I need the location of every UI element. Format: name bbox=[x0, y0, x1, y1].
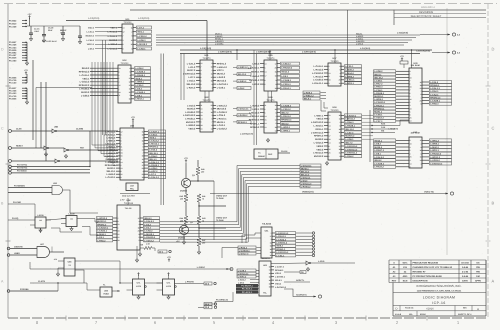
svg-text:L-RAS8.3: L-RAS8.3 bbox=[79, 88, 90, 91]
svg-text:18: 18 bbox=[201, 124, 203, 127]
svg-text:62916 REV A: 62916 REV A bbox=[421, 6, 435, 9]
svg-text:14: 14 bbox=[275, 129, 277, 132]
svg-text:4: 4 bbox=[130, 74, 131, 77]
svg-text:15: 15 bbox=[142, 130, 144, 133]
svg-text:L-D6.2: L-D6.2 bbox=[238, 87, 245, 90]
svg-text:5: 5 bbox=[265, 108, 266, 111]
svg-text:18: 18 bbox=[339, 148, 341, 151]
svg-text:14: 14 bbox=[265, 71, 267, 74]
svg-text:DM: DM bbox=[476, 275, 480, 278]
svg-text:18: 18 bbox=[329, 138, 331, 141]
svg-text:L-CS4.1: L-CS4.1 bbox=[87, 31, 95, 34]
svg-text:L-MA6.3: L-MA6.3 bbox=[107, 173, 116, 176]
svg-text:L-WE3.2: L-WE3.2 bbox=[238, 80, 247, 83]
svg-text:7: 7 bbox=[421, 90, 422, 93]
svg-text:L-WE13.2: L-WE13.2 bbox=[238, 66, 249, 69]
svg-text:4: 4 bbox=[143, 170, 144, 173]
svg-text:1: 1 bbox=[340, 121, 341, 124]
svg-text:8: 8 bbox=[143, 136, 144, 139]
svg-text:L-DATA(15:0): L-DATA(15:0) bbox=[240, 133, 253, 136]
svg-text:L-WE6.2: L-WE6.2 bbox=[345, 75, 354, 78]
svg-text:20: 20 bbox=[339, 79, 341, 82]
svg-text:10: 10 bbox=[201, 127, 203, 130]
svg-text:L-CAS10.1: L-CAS10.1 bbox=[345, 114, 357, 117]
svg-text:14: 14 bbox=[142, 149, 144, 152]
svg-text:L-CS8.3: L-CS8.3 bbox=[81, 94, 90, 97]
svg-text:15: 15 bbox=[211, 108, 213, 111]
svg-text:16MHZ: 16MHZ bbox=[258, 155, 266, 158]
svg-text:10: 10 bbox=[275, 104, 277, 107]
svg-text:L-MA8.2: L-MA8.2 bbox=[251, 104, 260, 107]
svg-text:L-CS1.1: L-CS1.1 bbox=[345, 65, 354, 68]
svg-text:L-D8.1: L-D8.1 bbox=[374, 153, 381, 156]
svg-text:7: 7 bbox=[271, 232, 272, 235]
svg-text:P1-A47: P1-A47 bbox=[9, 54, 17, 57]
svg-text:L-CAS0.1: L-CAS0.1 bbox=[135, 91, 146, 94]
svg-text:L-DAL2.2: L-DAL2.2 bbox=[149, 176, 159, 179]
svg-text:L-D7.1: L-D7.1 bbox=[188, 76, 196, 79]
svg-text:74S240: 74S240 bbox=[331, 109, 340, 112]
svg-text:11: 11 bbox=[119, 94, 121, 97]
svg-text:20: 20 bbox=[275, 67, 277, 70]
svg-text:3: 3 bbox=[329, 82, 330, 85]
svg-text:2: 2 bbox=[410, 101, 411, 104]
svg-text:P1-B07: P1-B07 bbox=[9, 41, 17, 44]
svg-text:L-MA12.3: L-MA12.3 bbox=[249, 112, 260, 115]
svg-text:5: 5 bbox=[265, 111, 266, 114]
svg-text:7: 7 bbox=[118, 217, 119, 220]
svg-text:L-RAS9.3: L-RAS9.3 bbox=[185, 111, 196, 114]
svg-text:20: 20 bbox=[138, 230, 140, 233]
svg-text:14: 14 bbox=[269, 272, 271, 275]
svg-text:2: 2 bbox=[410, 89, 411, 92]
svg-text:P1-B37: P1-B37 bbox=[9, 87, 17, 90]
svg-text:1: 1 bbox=[329, 155, 330, 158]
svg-text:16K RAM: 16K RAM bbox=[410, 64, 419, 67]
svg-text:L-DATA12.3: L-DATA12.3 bbox=[183, 114, 196, 117]
svg-text:74LS244: 74LS244 bbox=[262, 222, 272, 225]
svg-text:L-MA2.2: L-MA2.2 bbox=[107, 137, 116, 140]
svg-text:14: 14 bbox=[201, 111, 203, 114]
svg-text:8: 8 bbox=[340, 124, 341, 127]
svg-text:12: 12 bbox=[129, 81, 131, 84]
svg-text:L-CA(15:0): L-CA(15:0) bbox=[88, 17, 99, 20]
svg-text:17: 17 bbox=[270, 235, 272, 238]
svg-text:L-RA13.2: L-RA13.2 bbox=[281, 115, 291, 118]
svg-text:C: C bbox=[492, 126, 495, 131]
svg-text:L-RA14.3: L-RA14.3 bbox=[108, 31, 119, 34]
svg-text:L-TV: L-TV bbox=[120, 199, 125, 202]
svg-text:L-CA(15:0): L-CA(15:0) bbox=[360, 47, 370, 50]
svg-text:9: 9 bbox=[143, 146, 144, 149]
svg-text:16: 16 bbox=[420, 149, 422, 152]
svg-text:P1-A49: P1-A49 bbox=[9, 25, 17, 28]
svg-text:L-RAS6.1: L-RAS6.1 bbox=[345, 125, 356, 128]
svg-text:4: 4 bbox=[139, 223, 140, 226]
svg-text:L-CAS9.3: L-CAS9.3 bbox=[374, 162, 385, 165]
svg-text:12: 12 bbox=[201, 62, 203, 65]
svg-text:L-RA15.2: L-RA15.2 bbox=[374, 166, 384, 169]
svg-text:L-WE1.1: L-WE1.1 bbox=[430, 149, 439, 152]
svg-text:L-D5.3: L-D5.3 bbox=[281, 75, 288, 78]
svg-text:9: 9 bbox=[340, 75, 341, 78]
svg-text:17: 17 bbox=[265, 75, 267, 78]
svg-text:16: 16 bbox=[129, 98, 131, 101]
svg-text:10: 10 bbox=[270, 241, 272, 244]
svg-text:19: 19 bbox=[269, 286, 271, 289]
svg-text:16: 16 bbox=[211, 111, 213, 114]
svg-text:PX-HSYNC: PX-HSYNC bbox=[17, 167, 28, 170]
svg-text:6: 6 bbox=[201, 121, 202, 124]
svg-text:P1-C19: P1-C19 bbox=[9, 79, 17, 82]
svg-text:16: 16 bbox=[339, 114, 341, 117]
svg-text:8: 8 bbox=[121, 139, 122, 142]
svg-text:18: 18 bbox=[269, 276, 271, 279]
svg-text:19: 19 bbox=[269, 282, 271, 285]
svg-text:19: 19 bbox=[142, 155, 144, 158]
svg-text:14: 14 bbox=[265, 115, 267, 118]
svg-text:7: 7 bbox=[212, 121, 213, 124]
svg-text:A: A bbox=[477, 307, 479, 311]
svg-text:12: 12 bbox=[123, 31, 125, 34]
svg-text:75: 75 bbox=[202, 220, 204, 223]
svg-text:MUX12.3: MUX12.3 bbox=[217, 80, 227, 83]
svg-text:10: 10 bbox=[339, 82, 341, 85]
svg-text:L-CS7.3: L-CS7.3 bbox=[345, 131, 354, 134]
svg-text:CLK8: CLK8 bbox=[16, 128, 22, 131]
svg-text:4: 4 bbox=[410, 159, 411, 162]
svg-text:8: 8 bbox=[421, 93, 422, 96]
svg-text:7: 7 bbox=[410, 79, 411, 82]
svg-text:62916: 62916 bbox=[420, 313, 426, 316]
svg-text:11: 11 bbox=[265, 104, 267, 107]
svg-text:1: 1 bbox=[340, 135, 341, 138]
svg-text:1: 1 bbox=[410, 95, 411, 98]
svg-text:CHANGED PIN 11 OF U71 TO U66A-: CHANGED PIN 11 OF U71 TO U66A-10 bbox=[413, 266, 453, 269]
svg-text:19: 19 bbox=[410, 107, 412, 110]
svg-text:L-CAS1.3: L-CAS1.3 bbox=[249, 79, 260, 82]
svg-text:5: 5 bbox=[410, 149, 411, 152]
svg-text:74S240: 74S240 bbox=[331, 60, 340, 63]
svg-text:11: 11 bbox=[131, 26, 133, 29]
svg-text:MUX15.3: MUX15.3 bbox=[86, 35, 95, 38]
svg-text:J3-5: J3-5 bbox=[205, 306, 210, 309]
svg-text:L-DAL11.1: L-DAL11.1 bbox=[312, 82, 324, 85]
svg-text:L-WE1.2: L-WE1.2 bbox=[430, 139, 439, 142]
svg-text:10: 10 bbox=[201, 114, 203, 117]
svg-text:1: 1 bbox=[121, 136, 122, 139]
svg-text:L-MA4.2: L-MA4.2 bbox=[345, 72, 354, 75]
svg-text:16: 16 bbox=[121, 149, 123, 152]
svg-text:8: 8 bbox=[276, 83, 277, 86]
svg-text:8: 8 bbox=[212, 117, 213, 120]
svg-text:RFSH12.3: RFSH12.3 bbox=[79, 84, 90, 87]
svg-text:PX-CMD: PX-CMD bbox=[13, 201, 21, 204]
svg-text:L-MA0.3: L-MA0.3 bbox=[345, 69, 354, 72]
svg-text:8: 8 bbox=[265, 79, 266, 82]
svg-text:VID13.1: VID13.1 bbox=[87, 43, 95, 46]
svg-text:P1-B10: P1-B10 bbox=[9, 22, 17, 25]
svg-text:MUX6.2: MUX6.2 bbox=[217, 73, 226, 76]
svg-text:L-PRSTB: L-PRSTB bbox=[185, 280, 194, 283]
svg-text:L-CA8.1: L-CA8.1 bbox=[217, 86, 226, 89]
svg-text:62916: 62916 bbox=[426, 308, 434, 311]
svg-text:19: 19 bbox=[339, 141, 341, 144]
svg-text:L-D3.2: L-D3.2 bbox=[252, 83, 260, 86]
svg-text:VID7.1: VID7.1 bbox=[110, 26, 118, 29]
svg-text:L-CAS8.1: L-CAS8.1 bbox=[215, 42, 223, 45]
svg-text:20: 20 bbox=[211, 104, 213, 107]
svg-text:L-RXD: L-RXD bbox=[318, 260, 325, 263]
svg-text:ADDCTL: ADDCTL bbox=[296, 279, 305, 282]
svg-text:5: 5 bbox=[329, 131, 330, 134]
svg-text:MUX3.3: MUX3.3 bbox=[187, 108, 196, 111]
svg-text:VID13.3: VID13.3 bbox=[281, 71, 290, 74]
svg-text:17: 17 bbox=[129, 84, 131, 87]
svg-text:D: D bbox=[395, 306, 397, 310]
svg-text:4: 4 bbox=[410, 146, 411, 149]
svg-text:L-DAL13.1: L-DAL13.1 bbox=[238, 108, 250, 111]
svg-text:USBR: USBR bbox=[14, 252, 20, 255]
svg-text:MUX0.1: MUX0.1 bbox=[251, 71, 260, 74]
svg-text:L-WE8.1: L-WE8.1 bbox=[430, 143, 439, 146]
svg-text:8: 8 bbox=[421, 103, 422, 106]
svg-text:SHEET 1 OF 4: SHEET 1 OF 4 bbox=[458, 313, 472, 316]
svg-text:RST: RST bbox=[80, 147, 85, 150]
svg-text:L-RAS6.2: L-RAS6.2 bbox=[238, 114, 249, 117]
svg-text:9: 9 bbox=[276, 79, 277, 82]
svg-text:1-6-84: 1-6-84 bbox=[462, 266, 469, 269]
svg-text:17: 17 bbox=[339, 145, 341, 148]
svg-text:P1-B35: P1-B35 bbox=[9, 57, 17, 60]
svg-text:L-WE15.1: L-WE15.1 bbox=[105, 155, 116, 158]
svg-text:13: 13 bbox=[339, 138, 341, 141]
svg-text:4: 4 bbox=[410, 70, 411, 73]
svg-text:2: 2 bbox=[139, 239, 140, 242]
svg-text:4: 4 bbox=[201, 69, 202, 72]
svg-text:SEE BOTTOM OF SHEET: SEE BOTTOM OF SHEET bbox=[411, 15, 442, 18]
svg-text:150: 150 bbox=[180, 220, 183, 223]
svg-text:10: 10 bbox=[118, 223, 120, 226]
svg-text:L-CA13.1: L-CA13.1 bbox=[106, 176, 117, 179]
svg-text:18: 18 bbox=[270, 245, 272, 248]
svg-text:SEL13.2: SEL13.2 bbox=[345, 128, 354, 131]
svg-text:14: 14 bbox=[265, 122, 267, 125]
svg-text:5: 5 bbox=[265, 83, 266, 86]
svg-text:L-WE7.3: L-WE7.3 bbox=[106, 140, 116, 143]
svg-text:9: 9 bbox=[139, 233, 140, 236]
svg-text:L-CS15.3: L-CS15.3 bbox=[281, 83, 291, 86]
svg-text:7: 7 bbox=[329, 68, 330, 71]
svg-text:18: 18 bbox=[339, 128, 341, 131]
svg-text:8: 8 bbox=[340, 155, 341, 158]
svg-text:L-CS11.1: L-CS11.1 bbox=[345, 79, 355, 82]
svg-text:LOGIC DIAGRAM: LOGIC DIAGRAM bbox=[423, 296, 456, 300]
svg-text:L-D6.3: L-D6.3 bbox=[252, 63, 260, 66]
svg-text:L-AD13.2: L-AD13.2 bbox=[144, 239, 154, 242]
svg-text:MUX10.2: MUX10.2 bbox=[217, 108, 227, 111]
svg-text:MUX15.2: MUX15.2 bbox=[345, 135, 355, 138]
svg-text:14: 14 bbox=[420, 159, 422, 162]
svg-text:7: 7 bbox=[143, 152, 144, 155]
svg-text:1140 RINGWOOD CT, SAN JOSE, C: 1140 RINGWOOD CT, SAN JOSE, CA 95131 bbox=[417, 290, 462, 293]
svg-text:13: 13 bbox=[265, 62, 267, 65]
svg-text:L-RA12.3: L-RA12.3 bbox=[106, 130, 117, 133]
svg-text:L-MA0.3: L-MA0.3 bbox=[430, 146, 439, 149]
svg-text:MUX8.3: MUX8.3 bbox=[109, 39, 118, 42]
svg-text:MUX7.3: MUX7.3 bbox=[187, 69, 196, 72]
svg-text:L-RAS14.2: L-RAS14.2 bbox=[430, 153, 442, 156]
svg-text:13: 13 bbox=[275, 119, 277, 122]
svg-text:L-RA10.1: L-RA10.1 bbox=[217, 118, 228, 121]
svg-text:1: 1 bbox=[421, 96, 422, 99]
svg-text:L-RAS5.3: L-RAS5.3 bbox=[135, 74, 146, 77]
svg-text:1.5K: 1.5K bbox=[146, 242, 151, 245]
svg-text:L-DATA10.3: L-DATA10.3 bbox=[275, 286, 287, 289]
svg-text:L-RA5.3: L-RA5.3 bbox=[187, 86, 196, 89]
svg-text:L-CAS14.1: L-CAS14.1 bbox=[104, 133, 116, 136]
svg-text:P1-A46: P1-A46 bbox=[9, 90, 17, 93]
svg-text:18: 18 bbox=[142, 133, 144, 136]
svg-text:L-CAS0.2: L-CAS0.2 bbox=[281, 104, 292, 107]
svg-text:14: 14 bbox=[201, 117, 203, 120]
svg-text:75452: 75452 bbox=[103, 293, 109, 296]
svg-text:20: 20 bbox=[142, 173, 144, 176]
svg-text:L-DATA11.3: L-DATA11.3 bbox=[345, 152, 358, 155]
svg-text:J3-2: J3-2 bbox=[205, 282, 210, 285]
svg-text:L-WE5.3: L-WE5.3 bbox=[108, 43, 118, 46]
svg-text:16: 16 bbox=[420, 156, 422, 159]
svg-text:TVL-16: TVL-16 bbox=[125, 207, 133, 210]
svg-text:13: 13 bbox=[410, 162, 412, 165]
svg-text:10: 10 bbox=[211, 66, 213, 69]
svg-text:R40: R40 bbox=[201, 168, 204, 171]
svg-text:P1-B06: P1-B06 bbox=[9, 76, 17, 79]
svg-text:2: 2 bbox=[119, 74, 120, 77]
svg-text:L-CA8.3: L-CA8.3 bbox=[86, 39, 94, 42]
svg-text:11: 11 bbox=[339, 118, 341, 121]
svg-text:4: 4 bbox=[212, 86, 213, 89]
svg-text:VID7.1: VID7.1 bbox=[217, 69, 225, 72]
svg-text:L-DATA13.3: L-DATA13.3 bbox=[345, 148, 358, 151]
svg-text:L-CA(15:0): L-CA(15:0) bbox=[138, 17, 149, 20]
svg-text:L-MA3.2: L-MA3.2 bbox=[238, 275, 247, 278]
svg-text:MUX8.3: MUX8.3 bbox=[315, 138, 324, 141]
svg-text:P1-A60: P1-A60 bbox=[9, 59, 17, 62]
svg-text:RFSH14.3: RFSH14.3 bbox=[105, 164, 116, 167]
svg-text:SEL10.1: SEL10.1 bbox=[107, 170, 117, 173]
svg-text:L-D10.3: L-D10.3 bbox=[187, 104, 196, 107]
svg-text:VID8.2: VID8.2 bbox=[316, 145, 324, 148]
svg-text:150: 150 bbox=[180, 198, 183, 201]
svg-text:R41: R41 bbox=[202, 195, 205, 198]
svg-text:L-CS1.1: L-CS1.1 bbox=[276, 254, 285, 257]
svg-text:L-MA2.1: L-MA2.1 bbox=[135, 98, 144, 101]
svg-text:L-CA1.2: L-CA1.2 bbox=[187, 62, 196, 65]
svg-text:74S374: 74S374 bbox=[267, 99, 276, 102]
svg-text:RFSH6.3: RFSH6.3 bbox=[275, 269, 284, 272]
svg-text:16: 16 bbox=[269, 279, 271, 282]
svg-text:74LS374: 74LS374 bbox=[261, 257, 271, 260]
svg-text:RAS: RAS bbox=[381, 122, 386, 125]
svg-text:P1-A03: P1-A03 bbox=[9, 92, 17, 95]
svg-text:16: 16 bbox=[142, 161, 144, 164]
svg-text:VID1.1: VID1.1 bbox=[137, 31, 144, 34]
svg-text:J3-STB: J3-STB bbox=[38, 280, 45, 283]
svg-text:P1-A23: P1-A23 bbox=[9, 46, 17, 49]
svg-text:8: 8 bbox=[121, 133, 122, 136]
svg-text:L-RAS7.3: L-RAS7.3 bbox=[374, 149, 385, 152]
svg-text:L-AD(15:0): L-AD(15:0) bbox=[397, 32, 408, 35]
svg-text:15: 15 bbox=[275, 71, 277, 74]
svg-text:1: 1 bbox=[212, 69, 213, 72]
svg-text:J3-4: J3-4 bbox=[205, 303, 210, 306]
svg-text:17: 17 bbox=[129, 77, 131, 80]
svg-text:1: 1 bbox=[118, 226, 119, 229]
svg-text:130: 130 bbox=[201, 171, 204, 174]
svg-text:20: 20 bbox=[420, 87, 422, 90]
svg-text:L-CS5.3: L-CS5.3 bbox=[135, 84, 144, 87]
svg-text:L-DATA10.3: L-DATA10.3 bbox=[430, 162, 443, 165]
svg-text:L-RAS4.1: L-RAS4.1 bbox=[185, 118, 196, 121]
svg-text:5: 5 bbox=[410, 92, 411, 95]
svg-text:2: 2 bbox=[329, 65, 330, 68]
svg-text:13: 13 bbox=[410, 120, 412, 123]
svg-text:2: 2 bbox=[121, 143, 122, 146]
svg-text:14: 14 bbox=[329, 124, 331, 127]
svg-text:P1-B39: P1-B39 bbox=[9, 49, 17, 52]
svg-text:3: 3 bbox=[410, 166, 411, 169]
svg-text:SEL7.2: SEL7.2 bbox=[281, 112, 289, 115]
svg-text:13: 13 bbox=[329, 72, 331, 75]
svg-text:L-DATA(15:0): L-DATA(15:0) bbox=[256, 50, 270, 53]
svg-text:L-AD9.2: L-AD9.2 bbox=[135, 67, 144, 70]
svg-text:APPD: APPD bbox=[475, 279, 481, 282]
svg-text:18: 18 bbox=[329, 79, 331, 82]
svg-text:8: 8 bbox=[410, 139, 411, 142]
svg-text:L-MA(8:0): L-MA(8:0) bbox=[388, 127, 398, 130]
svg-text:PC PRODUCTION RELEASE: PC PRODUCTION RELEASE bbox=[413, 275, 443, 278]
svg-text:74S374: 74S374 bbox=[267, 57, 276, 60]
svg-text:L-DAL2.3: L-DAL2.3 bbox=[105, 143, 116, 146]
svg-text:L-RAS4.2: L-RAS4.2 bbox=[301, 185, 312, 188]
svg-text:N/A: N/A bbox=[409, 313, 413, 316]
svg-text:MUX3.1: MUX3.1 bbox=[107, 167, 116, 170]
svg-text:8: 8 bbox=[123, 43, 124, 46]
svg-text:20: 20 bbox=[142, 167, 144, 170]
svg-text:4: 4 bbox=[201, 86, 202, 89]
svg-text:SCALE: SCALE bbox=[395, 313, 402, 316]
svg-text:L-CS14.3: L-CS14.3 bbox=[281, 63, 291, 66]
svg-text:8: 8 bbox=[276, 111, 277, 114]
svg-text:14: 14 bbox=[329, 141, 331, 144]
svg-text:L-MA5.3: L-MA5.3 bbox=[251, 75, 260, 78]
svg-text:L-AD4.2: L-AD4.2 bbox=[238, 278, 246, 281]
svg-text:8: 8 bbox=[121, 170, 122, 173]
svg-text:11: 11 bbox=[142, 158, 144, 161]
svg-text:16: 16 bbox=[339, 131, 341, 134]
svg-text:2: 2 bbox=[121, 164, 122, 167]
svg-text:5: 5 bbox=[201, 73, 202, 76]
svg-text:L-CS15.2: L-CS15.2 bbox=[314, 142, 324, 145]
svg-text:15: 15 bbox=[119, 84, 121, 87]
svg-text:L-CAS0.3: L-CAS0.3 bbox=[313, 79, 324, 82]
svg-text:P1-B22: P1-B22 bbox=[9, 19, 17, 22]
svg-text:L-MA14.2: L-MA14.2 bbox=[217, 66, 228, 69]
svg-text:3: 3 bbox=[410, 104, 411, 107]
svg-text:L-AD7.2: L-AD7.2 bbox=[107, 149, 116, 152]
svg-text:L-RA2.2: L-RA2.2 bbox=[217, 76, 226, 79]
